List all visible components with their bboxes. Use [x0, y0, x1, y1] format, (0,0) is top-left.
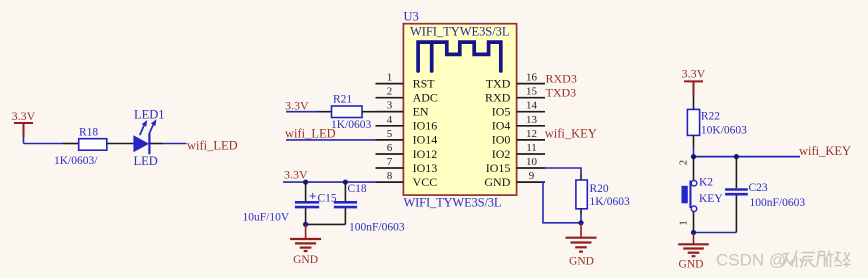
ground (key): [678, 233, 709, 271]
svg-text:12: 12: [526, 128, 537, 140]
svg-text:15: 15: [526, 86, 538, 98]
svg-text:IO13: IO13: [413, 161, 438, 175]
svg-text:wifi_KEY: wifi_KEY: [799, 144, 851, 158]
svg-text:5: 5: [387, 128, 393, 140]
svg-text:2: 2: [387, 86, 393, 98]
svg-text:WIFI_TYWE3S/3L: WIFI_TYWE3S/3L: [404, 196, 502, 210]
net label TXD3: [546, 86, 577, 100]
svg-text:TXD: TXD: [486, 76, 511, 90]
svg-text:1: 1: [387, 72, 393, 84]
capacitor C18 (100nF/0603): [334, 182, 405, 233]
svg-text:10K/0603: 10K/0603: [701, 125, 747, 137]
svg-text:R21: R21: [333, 94, 352, 106]
svg-text:+: +: [309, 189, 316, 204]
svg-text:IO5: IO5: [492, 105, 511, 119]
power net 3.3V (to R21 / EN pin 3): [285, 99, 318, 113]
svg-text:RXD: RXD: [485, 91, 511, 105]
switch K2: [679, 157, 724, 233]
svg-text:4: 4: [387, 114, 393, 126]
svg-text:7: 7: [387, 156, 393, 168]
power port 3.3V (key circuit): [682, 67, 706, 96]
pin 7 IO13: [376, 156, 438, 175]
svg-text:IO2: IO2: [492, 147, 511, 161]
wire 3.3V to R18: [24, 143, 64, 145]
pin 8 VCC: [376, 170, 438, 189]
svg-text:1K/0603/: 1K/0603/: [54, 155, 98, 167]
svg-text:GND: GND: [679, 259, 704, 271]
svg-text:EN: EN: [413, 105, 429, 119]
pin 5 IO14: [376, 128, 438, 147]
power net 3.3V (VCC rail): [283, 168, 376, 183]
pin 10 IO15: [486, 156, 545, 175]
wire R22 to key rail: [693, 147, 695, 157]
svg-text:3: 3: [387, 100, 393, 112]
svg-text:LED1: LED1: [134, 108, 165, 122]
wire key rail to net label: [694, 156, 801, 158]
svg-text:1K/0603: 1K/0603: [331, 119, 372, 131]
wire C18 bottom to C15 bottom: [306, 223, 346, 225]
svg-text:1K/0603: 1K/0603: [590, 196, 631, 208]
junction node GND (caps): [303, 222, 308, 227]
wire pin9 to GND node: [543, 182, 579, 223]
svg-text:3.3V: 3.3V: [682, 67, 706, 81]
junction node K2 bottom: [691, 230, 696, 235]
power port 3.3V (left, for LED): [12, 109, 36, 144]
svg-text:3.3V: 3.3V: [284, 168, 308, 182]
pin 15 RXD: [485, 86, 545, 105]
svg-text:CSDN @: CSDN @: [716, 251, 786, 270]
svg-text:GND: GND: [569, 256, 594, 268]
resistor R21: [318, 94, 403, 132]
junction node C15/VCC: [303, 180, 308, 185]
svg-text:R20: R20: [590, 183, 609, 195]
pin 1 RST: [376, 72, 436, 91]
svg-text:6: 6: [387, 142, 393, 154]
svg-text:K2: K2: [699, 177, 713, 189]
pin 12 IO0: [492, 128, 545, 147]
svg-text:VCC: VCC: [413, 175, 438, 189]
op module U3 WIFI_TYWE3S/3L body: [403, 10, 516, 210]
svg-text:14: 14: [526, 100, 538, 112]
LED LED1: [133, 108, 164, 169]
net label wifi_KEY (pin 12): [545, 127, 597, 141]
svg-text:10: 10: [526, 156, 538, 168]
svg-text:3.3V: 3.3V: [12, 109, 36, 123]
svg-text:TXD3: TXD3: [546, 86, 577, 100]
svg-text:LED: LED: [134, 154, 158, 168]
junction node C23 top: [734, 154, 739, 159]
ground (R20): [566, 223, 597, 268]
wire wifi_LED to pin 5: [286, 139, 376, 141]
svg-text:IO0: IO0: [492, 133, 511, 147]
svg-text:wifi_KEY: wifi_KEY: [545, 127, 597, 141]
svg-text:C18: C18: [348, 183, 367, 195]
pin 3 EN: [376, 100, 429, 119]
pin 9 GND: [484, 170, 545, 189]
antenna symbol inside U3: [418, 42, 501, 71]
svg-text:IO4: IO4: [492, 119, 511, 133]
svg-text:100nF/0603: 100nF/0603: [750, 197, 806, 209]
net label wifi_KEY (right): [799, 144, 851, 158]
wire LED to net label: [163, 143, 187, 145]
wire R20 bottom to GND node: [580, 215, 582, 223]
wire pin10 to R20: [545, 168, 581, 174]
net label wifi_LED (left): [187, 139, 238, 153]
pin 2 ADC: [376, 86, 438, 105]
junction node C18/VCC: [343, 180, 348, 185]
svg-text:1: 1: [679, 220, 690, 225]
resistor R20: [576, 174, 630, 215]
pin 4 IO16: [376, 114, 438, 133]
capacitor C15 (polarized 10uF/10V): [243, 182, 337, 224]
svg-text:GND: GND: [293, 254, 318, 266]
svg-text:9: 9: [529, 170, 535, 182]
net label wifi_LED (to IO14 pin 5): [285, 127, 336, 141]
svg-text:WIFI_TYWE3S/3L: WIFI_TYWE3S/3L: [410, 25, 510, 39]
svg-text:IO16: IO16: [413, 119, 438, 133]
watermark CSDN: [716, 251, 851, 270]
svg-text:8: 8: [387, 170, 393, 182]
svg-text:GND: GND: [484, 175, 510, 189]
svg-text:IO15: IO15: [486, 161, 511, 175]
svg-text:2: 2: [679, 160, 690, 165]
pin 6 IO12: [376, 142, 438, 161]
svg-text:RST: RST: [413, 76, 436, 90]
capacitor C23: [725, 157, 805, 233]
svg-text:10uF/10V: 10uF/10V: [243, 212, 290, 224]
svg-text:ADC: ADC: [413, 91, 438, 105]
svg-text:KEY: KEY: [699, 193, 723, 205]
svg-text:RXD3: RXD3: [546, 72, 577, 86]
svg-text:13: 13: [526, 114, 538, 126]
svg-text:wifi_LED: wifi_LED: [187, 139, 238, 153]
pin 16 TXD: [486, 72, 545, 91]
svg-text:100nF/0603: 100nF/0603: [349, 222, 405, 234]
svg-text:3.3V: 3.3V: [285, 99, 309, 113]
resistor R18: [54, 127, 133, 168]
wire C23 bottom to K2 bottom: [694, 232, 737, 234]
junction node K2 top: [691, 154, 696, 159]
pin 14 IO5: [492, 100, 545, 119]
svg-text:IO14: IO14: [413, 133, 438, 147]
svg-text:IO12: IO12: [413, 147, 438, 161]
ground (caps): [290, 224, 321, 266]
net label RXD3: [546, 72, 577, 86]
svg-text:11: 11: [526, 142, 537, 154]
svg-text:U3: U3: [404, 10, 419, 24]
junction node R20/GND: [578, 220, 583, 225]
svg-text:C23: C23: [749, 182, 768, 194]
svg-text:wifi_LED: wifi_LED: [285, 127, 336, 141]
svg-text:16: 16: [526, 72, 538, 84]
pin 13 IO4: [492, 114, 545, 133]
svg-text:R22: R22: [701, 111, 720, 123]
resistor R22: [687, 95, 747, 147]
svg-text:R18: R18: [79, 127, 98, 139]
pin 11 IO2: [492, 142, 545, 161]
